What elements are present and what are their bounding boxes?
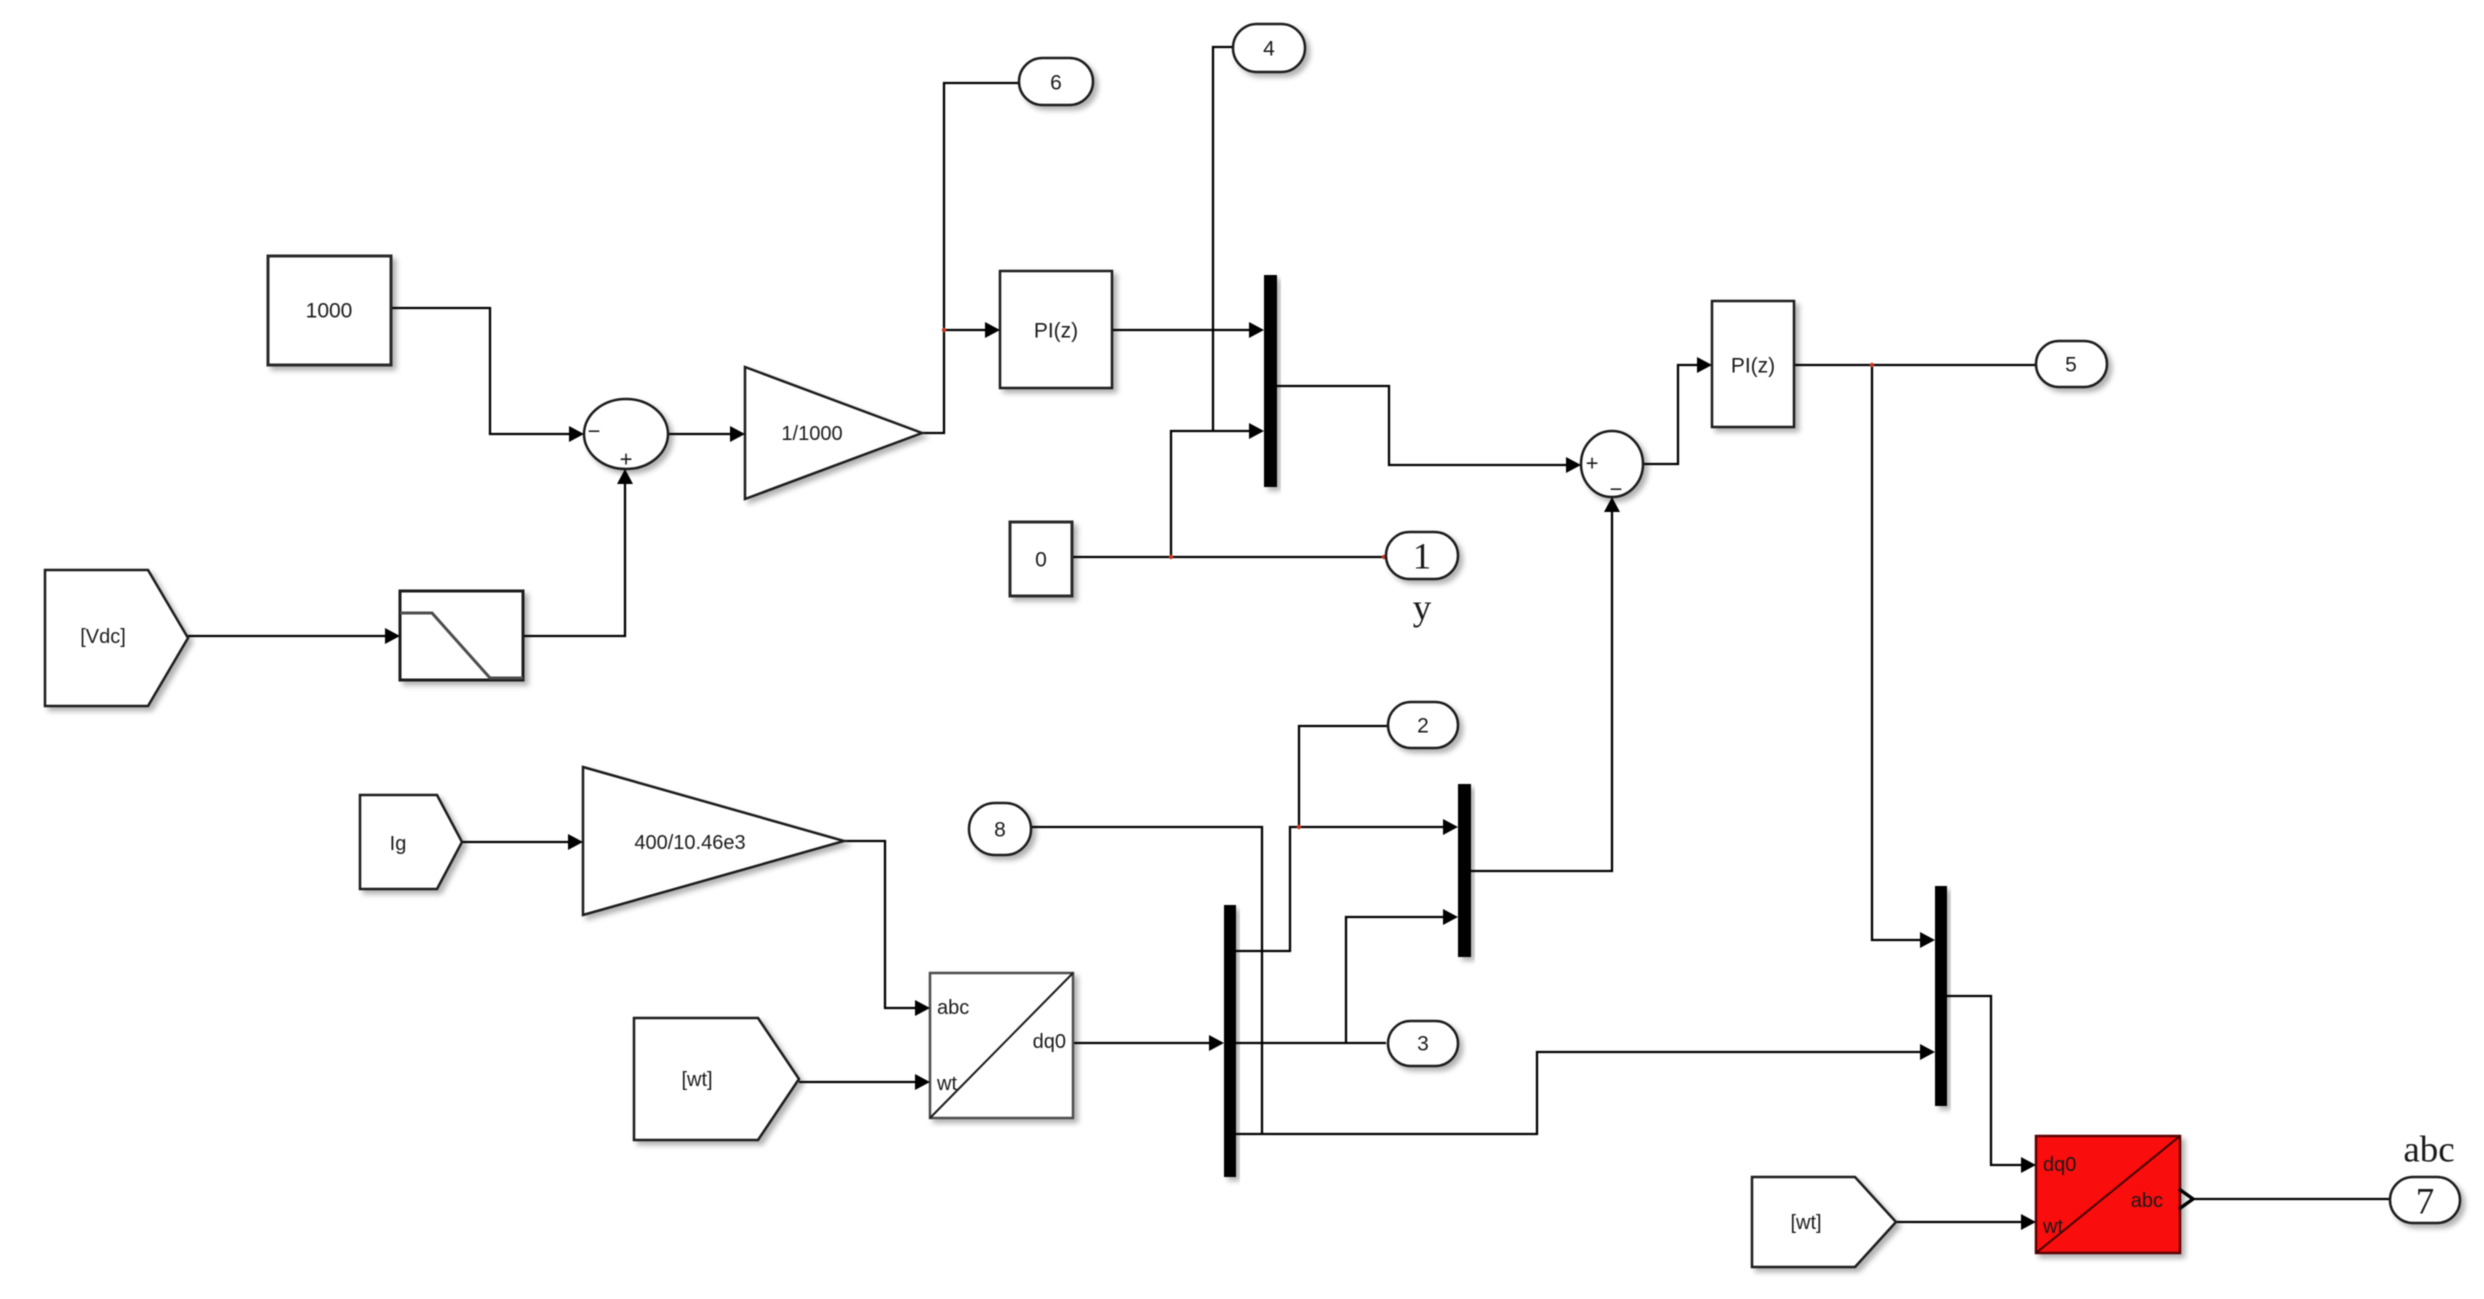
wire wt2 to red block xyxy=(1896,1221,2024,1223)
mux2 bar xyxy=(1458,784,1471,957)
wire dq0 output to demux3 xyxy=(1073,1042,1212,1044)
arrow into sum2 bottom xyxy=(1604,497,1620,512)
inport 8 xyxy=(969,803,1031,855)
PI(z) block U1 xyxy=(1000,271,1112,388)
arrow into red block dq0 xyxy=(2021,1157,2036,1173)
wire sum2 to PI(z)2 xyxy=(1643,365,1700,464)
wire mux2 output to sum2 minus input xyxy=(1471,509,1612,871)
outport 1 xyxy=(1386,532,1458,579)
arrow into sum2 left xyxy=(1566,457,1581,473)
wire constant 0 to outport 1 xyxy=(1072,556,1386,558)
outport 7 xyxy=(2390,1177,2460,1223)
mux1 bar xyxy=(1264,275,1277,487)
constant block 1000 xyxy=(268,256,391,365)
arrow into mux4 input1 xyxy=(1920,932,1935,948)
wire gain2 to abc input of abc-dq0 xyxy=(844,841,918,1008)
From tag Ig xyxy=(360,795,462,889)
wire demux3 out1 to mux2 input1 and outport 2 xyxy=(1236,827,1446,951)
arrow into mux2 input1 xyxy=(1443,819,1458,835)
abc to dq0 transform block xyxy=(930,973,1073,1118)
arrow into abc input xyxy=(915,1000,930,1016)
wire wt1 to wt input of abc-dq0 xyxy=(799,1081,918,1083)
wire demux3 out2 to outport 3 with branch to mux2 input2 xyxy=(1236,1042,1386,1044)
svg-text:dq0: dq0 xyxy=(1033,1031,1066,1053)
svg-text:y: y xyxy=(1413,588,1432,629)
arrow into filter xyxy=(385,628,400,644)
arrow into gain2 xyxy=(568,834,583,850)
sum block S1 xyxy=(584,399,668,469)
wire PI(z)2 to outport 5 with branch to mux4 input1 xyxy=(1794,364,2036,366)
svg-text:+: + xyxy=(620,447,633,472)
junction dot at outport 2 branch xyxy=(1297,825,1301,829)
svg-text:dq0: dq0 xyxy=(2043,1154,2076,1176)
arrow into gain1 xyxy=(730,426,745,442)
wire mux1 output to sum2 plus input xyxy=(1277,386,1569,465)
arrow into PI(z)1 xyxy=(985,322,1000,338)
outport 6 xyxy=(1019,58,1093,105)
svg-text:5: 5 xyxy=(2065,354,2077,377)
wire PI(z)1 to mux1 input1 xyxy=(1112,329,1252,331)
arrow into PI(z)2 xyxy=(1697,357,1712,373)
gain block 1/1000 xyxy=(745,367,922,499)
svg-text:wt: wt xyxy=(2042,1216,2063,1238)
svg-text:[Vdc]: [Vdc] xyxy=(80,626,126,648)
svg-text:abc: abc xyxy=(2403,1130,2454,1171)
constant block 0 xyxy=(1010,522,1072,596)
PI(z) block U2 xyxy=(1712,301,1794,427)
From tag [Vdc] xyxy=(45,570,188,706)
svg-text:−: − xyxy=(588,419,601,444)
wire sum1 to gain1 xyxy=(668,433,733,435)
red block output notch xyxy=(2179,1189,2193,1209)
svg-text:0: 0 xyxy=(1035,549,1047,572)
svg-text:4: 4 xyxy=(1263,38,1275,61)
junction dot at outport 1 connection xyxy=(1382,555,1386,559)
gain block 400/10.46e3 xyxy=(583,767,844,915)
sum block S2 xyxy=(1581,431,1643,497)
wire inport 8 down xyxy=(1031,827,1262,1134)
arrow into wt input xyxy=(915,1074,930,1090)
wire branch 0-signal up to mux1 input2 and outport 4 xyxy=(1171,431,1252,557)
wire gain1 to PI(z)1 with branch to outport 6 xyxy=(922,83,1019,433)
svg-text:[wt]: [wt] xyxy=(681,1069,712,1091)
From tag [wt] lower xyxy=(1752,1177,1896,1267)
svg-text:3: 3 xyxy=(1417,1033,1429,1056)
outport 2 xyxy=(1388,702,1458,748)
svg-text:1/1000: 1/1000 xyxy=(781,423,842,445)
svg-text:2: 2 xyxy=(1417,715,1429,738)
arrowheads xyxy=(385,322,2036,1230)
arrow into sum1 left xyxy=(569,426,584,442)
junction dot at gain1 output branch xyxy=(942,328,946,332)
svg-text:+: + xyxy=(1586,451,1599,476)
low-pass filter block xyxy=(400,591,523,680)
junction dot on 0-wire xyxy=(1169,555,1173,559)
outport 3 xyxy=(1388,1021,1458,1066)
svg-text:1000: 1000 xyxy=(306,300,353,323)
wire 1000 to sum1 xyxy=(391,308,571,434)
arrow into sum1 bottom xyxy=(617,469,633,484)
svg-text:6: 6 xyxy=(1050,72,1062,95)
demux3 bar xyxy=(1224,905,1236,1177)
wire mux4 output to red dq0-abc block xyxy=(1946,996,2024,1165)
arrow into demux3 xyxy=(1209,1035,1224,1051)
svg-text:1: 1 xyxy=(1413,537,1432,578)
svg-text:[wt]: [wt] xyxy=(1790,1212,1821,1234)
svg-text:wt: wt xyxy=(936,1073,957,1095)
outport 5 xyxy=(2036,341,2107,387)
svg-text:7: 7 xyxy=(2416,1182,2435,1223)
wire Ig to gain2 xyxy=(462,841,571,843)
arrow into mux4 input2 xyxy=(1920,1044,1935,1060)
junction dot at PI(z)2 output branch xyxy=(1870,363,1874,367)
arrow into red block wt xyxy=(2021,1214,2036,1230)
svg-text:−: − xyxy=(1610,477,1623,502)
wire filter to sum1 plus input xyxy=(523,482,625,636)
wire red block abc output to outport 7 xyxy=(2192,1198,2390,1200)
svg-text:abc: abc xyxy=(937,997,969,1019)
svg-text:Ig: Ig xyxy=(390,833,407,855)
svg-text:PI(z): PI(z) xyxy=(1034,320,1078,343)
arrow into mux2 input2 xyxy=(1443,909,1458,925)
mux4 bar xyxy=(1935,886,1947,1106)
svg-text:PI(z): PI(z) xyxy=(1731,355,1775,378)
svg-text:400/10.46e3: 400/10.46e3 xyxy=(634,832,745,854)
red dq0 to abc transform block xyxy=(2036,1136,2180,1253)
svg-text:8: 8 xyxy=(994,819,1006,842)
From tag [wt] upper xyxy=(634,1018,799,1140)
arrow into mux1 input2 xyxy=(1249,423,1264,439)
arrow into mux1 input1 xyxy=(1249,322,1264,338)
outport 4 xyxy=(1233,24,1305,72)
wire Vdc to filter xyxy=(188,635,388,637)
wire demux3 out3 to mux4 input2 xyxy=(1236,1052,1923,1134)
svg-text:abc: abc xyxy=(2131,1190,2163,1212)
